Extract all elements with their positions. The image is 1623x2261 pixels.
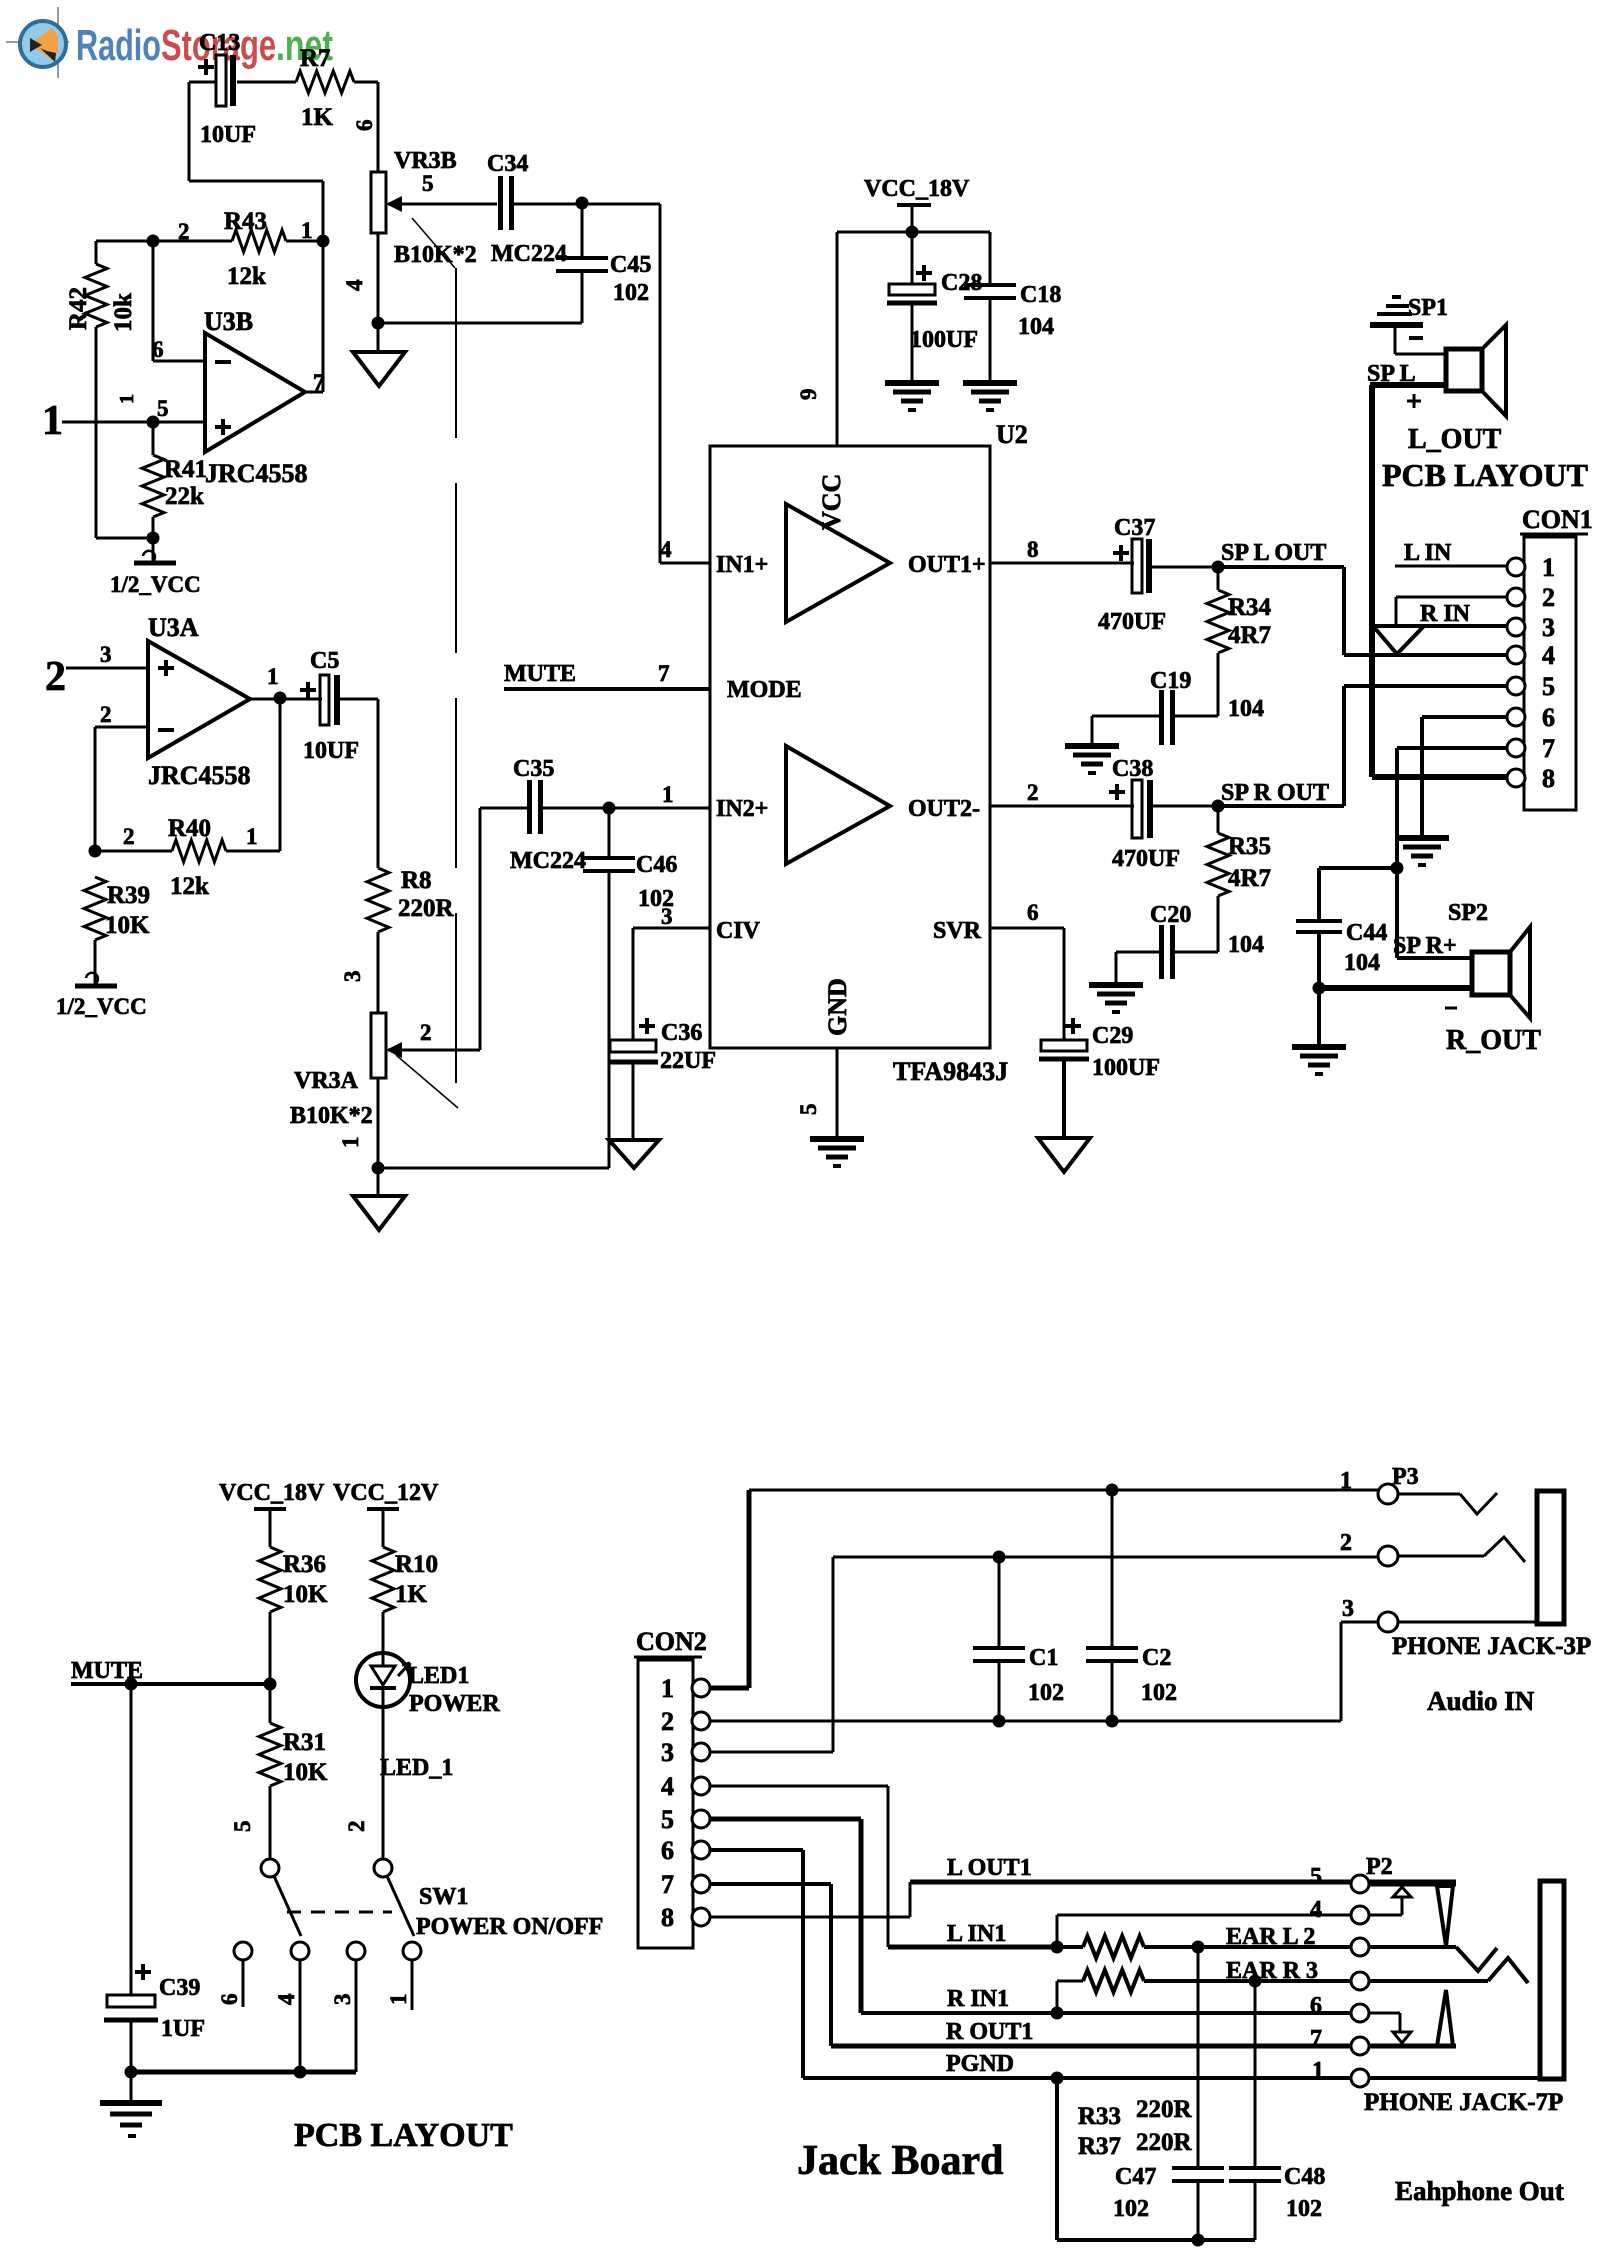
svg-text:CIV: CIV	[716, 918, 761, 944]
svg-text:C45: C45	[610, 252, 651, 278]
pin label MODE	[727, 677, 802, 703]
capacitor C34	[487, 151, 567, 267]
svg-text:1/2_VCC: 1/2_VCC	[56, 994, 147, 1019]
resistor R31	[230, 1684, 369, 1858]
phone jack P3 internals	[1398, 1491, 1564, 1624]
wire OUT1+ to C37	[990, 562, 1134, 565]
resistor R36	[259, 1547, 328, 1684]
svg-text:R33: R33	[1078, 2103, 1121, 2130]
svg-text:9: 9	[796, 389, 821, 401]
svg-text:C39: C39	[159, 1975, 200, 2001]
svg-text:10K: 10K	[283, 1581, 328, 1608]
svg-text:VCC_12V: VCC_12V	[333, 1480, 439, 1506]
svg-text:2: 2	[344, 1821, 369, 1833]
svg-text:6: 6	[217, 1994, 242, 2006]
svg-text:3: 3	[340, 971, 365, 983]
resistor R8	[340, 867, 455, 1013]
wire audio top rail	[749, 1489, 1378, 1492]
capacitor C2	[1086, 1490, 1177, 1721]
logo radiostorage icon	[6, 7, 69, 78]
net R IN	[1373, 601, 1507, 627]
resistor R39	[84, 877, 150, 985]
svg-text:C37: C37	[1114, 515, 1155, 541]
svg-text:R37: R37	[1078, 2133, 1121, 2160]
switch SW1	[217, 1859, 603, 2072]
svg-text:Audio IN: Audio IN	[1427, 1686, 1535, 1716]
speaker SP2	[1319, 927, 1530, 1018]
resistor R34	[1207, 567, 1272, 716]
wire VR3A bottom to C46	[378, 1167, 609, 1170]
capacitor C5	[300, 648, 359, 764]
svg-text:1/2_VCC: 1/2_VCC	[110, 572, 201, 597]
svg-text:470UF: 470UF	[1112, 846, 1180, 872]
svg-text:C38: C38	[1112, 756, 1153, 782]
wire SVR to C29	[990, 928, 1064, 1040]
wire CON1 pin6	[1422, 717, 1507, 836]
svg-text:PCB LAYOUT: PCB LAYOUT	[294, 2117, 513, 2154]
svg-text:22UF: 22UF	[660, 1048, 716, 1074]
resistor R33 inline	[1057, 1924, 1352, 1958]
ground VR3B	[353, 323, 405, 386]
svg-text:6: 6	[661, 1836, 674, 1865]
svg-text:102: 102	[613, 280, 649, 306]
wire PGND bottom loop	[1057, 2078, 1255, 2240]
resistor R37 inline	[1057, 1958, 1352, 2013]
svg-text:104: 104	[1228, 696, 1264, 722]
svg-text:R IN: R IN	[1420, 601, 1471, 627]
svg-text:104: 104	[1018, 314, 1054, 340]
svg-text:SP R+: SP R+	[1393, 933, 1457, 959]
svg-text:102: 102	[1286, 2196, 1322, 2222]
wire CON2 pin6 PGND	[710, 1850, 1352, 2078]
svg-text:2: 2	[45, 654, 66, 700]
capacitor C28	[887, 232, 982, 382]
wire CON2 pin7 R OUT1	[710, 1884, 1456, 2046]
op-amp U3B	[204, 307, 308, 488]
ground SP1	[1370, 297, 1423, 354]
svg-text:102: 102	[1141, 1680, 1177, 1706]
net SP R+	[1393, 868, 1472, 959]
svg-text:4: 4	[661, 1772, 674, 1801]
svg-text:3: 3	[1542, 613, 1555, 642]
svg-text:7: 7	[1542, 734, 1555, 763]
svg-text:VCC_18V: VCC_18V	[864, 176, 970, 202]
capacitor C18	[964, 232, 1061, 382]
svg-text:R39: R39	[107, 882, 150, 909]
capacitor C35	[510, 756, 710, 874]
svg-text:1: 1	[1542, 553, 1555, 582]
capacitor C37	[1098, 515, 1218, 635]
svg-text:R40: R40	[168, 815, 211, 842]
node C1 bottom	[993, 1715, 1006, 1728]
svg-text:Radio: Radio	[76, 21, 161, 70]
svg-text:C13: C13	[199, 30, 240, 56]
svg-text:10K: 10K	[283, 1759, 328, 1786]
triangle junction R IN	[1373, 626, 1424, 654]
svg-text:C35: C35	[513, 756, 554, 782]
svg-text:MODE: MODE	[727, 677, 802, 703]
node R43 left	[147, 235, 160, 248]
svg-text:7: 7	[658, 661, 670, 686]
power 1/2_VCC lower	[56, 973, 147, 1019]
net L IN	[1395, 540, 1507, 566]
node 2 input	[45, 642, 148, 700]
wire C34 to IN1+	[512, 204, 710, 563]
svg-text:OUT2-: OUT2-	[908, 796, 980, 822]
connector CON2	[634, 1627, 710, 1948]
svg-text:C34: C34	[487, 151, 528, 177]
svg-text:6: 6	[1027, 900, 1039, 925]
node R40 left	[89, 845, 102, 858]
svg-text:EAR R 3: EAR R 3	[1226, 1958, 1318, 1984]
svg-text:C29: C29	[1092, 1023, 1133, 1049]
node switch 4	[294, 2066, 307, 2079]
node C47 bottom	[1192, 2234, 1205, 2247]
capacitor C47	[1113, 1947, 1224, 2240]
speaker SP1	[1367, 325, 1506, 416]
svg-text:1: 1	[1312, 2058, 1324, 2084]
svg-text:102: 102	[1113, 2196, 1149, 2222]
wire C13 left loop	[189, 82, 323, 241]
svg-text:MC224: MC224	[491, 241, 567, 267]
svg-text:3: 3	[661, 1738, 674, 1767]
capacitor C39	[104, 1684, 205, 2072]
svg-text:104: 104	[1344, 950, 1380, 976]
wire CON2 pin5 R IN1	[710, 1819, 1352, 2013]
svg-text:22k: 22k	[165, 483, 204, 510]
svg-text:5: 5	[230, 1821, 255, 1833]
ground C19	[1065, 743, 1119, 749]
svg-text:CON2: CON2	[636, 1627, 707, 1656]
svg-text:MUTE: MUTE	[504, 661, 576, 687]
svg-text:12k: 12k	[227, 263, 266, 290]
node SP_R_OUT	[1212, 800, 1225, 813]
wire U3B output pin 7	[305, 241, 325, 395]
node MUTE C39	[125, 1678, 138, 1691]
svg-text:SP R OUT: SP R OUT	[1221, 780, 1329, 806]
svg-text:SW1: SW1	[419, 1884, 468, 1910]
svg-text:L IN: L IN	[1404, 540, 1452, 566]
power VCC_18V	[864, 176, 970, 232]
svg-text:R42: R42	[65, 287, 92, 330]
wire C45 to VR3B bottom	[378, 322, 582, 325]
ground C18	[963, 380, 1017, 386]
svg-text:C5: C5	[310, 648, 339, 674]
svg-text:1K: 1K	[301, 104, 334, 131]
svg-text:7: 7	[1310, 2026, 1322, 2052]
wire CIV	[633, 904, 710, 1040]
node EAR L	[1192, 1941, 1205, 1954]
node 1 input	[42, 394, 205, 444]
svg-text:3: 3	[661, 904, 673, 929]
svg-text:1K: 1K	[395, 1581, 428, 1608]
resistor R41	[142, 422, 207, 538]
ground VR3A	[353, 1168, 405, 1230]
power 1/2_VCC upper	[110, 538, 201, 597]
wire CON2 pin1	[710, 1490, 749, 1688]
node plus input	[147, 416, 160, 429]
svg-text:8: 8	[1027, 537, 1039, 562]
amplifier triangle 2	[786, 746, 890, 864]
capacitor C20	[1116, 902, 1264, 984]
svg-text:2: 2	[1340, 1530, 1352, 1556]
potentiometer VR3B	[342, 148, 497, 323]
net SP L OUT	[1218, 540, 1344, 655]
svg-text:PHONE JACK-3P: PHONE JACK-3P	[1392, 1633, 1591, 1660]
svg-text:6: 6	[352, 120, 377, 132]
node MUTE R31	[264, 1678, 277, 1691]
svg-text:2: 2	[420, 1020, 432, 1045]
ground CON1 pin6	[1395, 835, 1449, 841]
svg-text:SVR: SVR	[933, 918, 982, 944]
svg-text:SP L OUT: SP L OUT	[1221, 540, 1326, 566]
svg-text:8: 8	[1542, 764, 1555, 793]
svg-text:4: 4	[274, 1993, 299, 2005]
svg-text:5: 5	[422, 171, 434, 196]
resistor R43	[153, 208, 323, 290]
svg-text:IN2+: IN2+	[716, 796, 768, 822]
ground C20	[1089, 982, 1143, 988]
svg-text:1: 1	[661, 1674, 674, 1703]
svg-text:LED_1: LED_1	[380, 1755, 453, 1781]
wire CON2 pin4 L IN1	[710, 1786, 1057, 1947]
net MUTE lower	[71, 1658, 270, 1684]
svg-text:PCB LAYOUT: PCB LAYOUT	[1382, 457, 1588, 493]
capacitor C29	[1039, 1018, 1160, 1138]
node C1 top	[993, 1551, 1006, 1564]
svg-text:LED1: LED1	[408, 1663, 469, 1689]
svg-text:102: 102	[1028, 1680, 1064, 1706]
wire switch common	[131, 2070, 356, 2075]
wire GND pin 5	[796, 1048, 837, 1138]
svg-text:3: 3	[100, 642, 112, 667]
svg-text:C18: C18	[1020, 282, 1061, 308]
power VCC_12V	[333, 1480, 439, 1547]
svg-text:4: 4	[342, 279, 367, 291]
node SP2 plus	[1391, 862, 1404, 875]
svg-text:R10: R10	[395, 1551, 438, 1578]
svg-text:1: 1	[42, 398, 63, 444]
svg-text:100UF: 100UF	[1092, 1055, 1160, 1081]
wire pin4 net to P2 pin4	[1057, 1915, 1352, 1947]
wire CON1 pin5	[1344, 684, 1507, 688]
resistor R7	[296, 45, 354, 131]
resistor R42	[65, 241, 153, 538]
svg-text:2: 2	[1542, 583, 1555, 612]
capacitor C45	[556, 203, 651, 323]
svg-text:L IN1: L IN1	[947, 1921, 1006, 1947]
svg-text:1: 1	[338, 1137, 363, 1149]
svg-text:C36: C36	[661, 1020, 702, 1046]
svg-text:1UF: 1UF	[161, 2016, 205, 2042]
pin label OUT1+	[908, 537, 1039, 578]
pin label SVR	[933, 900, 1039, 944]
resistor R35	[1207, 806, 1271, 952]
svg-text:C20: C20	[1150, 902, 1191, 928]
svg-text:220R: 220R	[398, 895, 455, 922]
svg-text:L OUT1: L OUT1	[947, 1855, 1032, 1881]
ground C29	[1038, 1138, 1090, 1172]
LED LED1	[356, 1653, 500, 1858]
svg-text:C44: C44	[1346, 920, 1387, 946]
svg-text:5: 5	[1310, 1864, 1322, 1890]
svg-text:7: 7	[313, 370, 325, 395]
svg-text:4: 4	[660, 537, 672, 562]
svg-text:220R: 220R	[1136, 2096, 1193, 2123]
svg-text:4: 4	[1542, 641, 1555, 670]
wire CON1 pin2	[1396, 597, 1507, 624]
svg-text:R43: R43	[224, 208, 267, 235]
logo radiostorage text	[76, 21, 333, 70]
svg-text:PHONE JACK-7P: PHONE JACK-7P	[1364, 2089, 1563, 2116]
node VR3B bottom	[372, 317, 385, 330]
svg-text:104: 104	[1228, 932, 1264, 958]
capacitor C36	[608, 1018, 716, 1140]
svg-text:1: 1	[246, 824, 258, 849]
wire VCC rail	[796, 232, 990, 446]
capacitor C38	[1109, 756, 1218, 872]
svg-text:R41: R41	[164, 456, 207, 483]
wire OUT2- to C38	[990, 805, 1134, 808]
node C39 bottom	[125, 2066, 138, 2079]
svg-text:C46: C46	[636, 852, 677, 878]
svg-text:5: 5	[661, 1805, 674, 1834]
svg-text:IN1+: IN1+	[716, 552, 768, 578]
wire C5 to R8	[340, 699, 378, 868]
svg-text:POWER ON/OFF: POWER ON/OFF	[416, 1914, 603, 1940]
svg-text:OUT1+: OUT1+	[908, 552, 986, 578]
svg-text:Eahphone Out: Eahphone Out	[1395, 2176, 1564, 2206]
op-amp U3A	[148, 613, 251, 790]
wire CON1 pin7	[1397, 748, 1507, 868]
node C2 top	[1106, 1484, 1119, 1497]
svg-text:POWER: POWER	[409, 1691, 500, 1717]
capacitor C1	[973, 1557, 1064, 1721]
svg-text:5: 5	[796, 1104, 821, 1116]
svg-text:C1: C1	[1029, 1645, 1058, 1671]
svg-text:CON1: CON1	[1522, 505, 1593, 534]
svg-text:TFA9843J: TFA9843J	[893, 1057, 1008, 1086]
svg-text:220R: 220R	[1136, 2129, 1193, 2156]
power VCC_18V lower	[219, 1480, 325, 1547]
svg-text:1: 1	[386, 1994, 411, 2006]
capacitor C13	[198, 30, 256, 148]
wire C13 to R7	[237, 81, 296, 84]
wire CON2 pin2 rail	[710, 1720, 1341, 1723]
svg-text:L_OUT: L_OUT	[1408, 424, 1502, 455]
svg-text:5: 5	[1542, 672, 1555, 701]
svg-text:1: 1	[1340, 1468, 1352, 1494]
node C44 bottom	[1313, 982, 1326, 995]
svg-text:12k: 12k	[170, 873, 209, 900]
dashed channel divider	[455, 268, 457, 1105]
svg-text:MC224: MC224	[510, 848, 586, 874]
svg-text:10UF: 10UF	[303, 738, 359, 764]
svg-text:10k: 10k	[110, 293, 137, 332]
potentiometer VR3A	[290, 1013, 432, 1168]
svg-text:1: 1	[267, 664, 279, 689]
wire CON1 pin4	[1344, 653, 1507, 657]
ground C36	[609, 1140, 659, 1168]
node SP_L_OUT	[1212, 561, 1225, 574]
ground C44	[1292, 988, 1346, 1074]
svg-text:R31: R31	[283, 1729, 326, 1756]
phone jack P2 pins	[1310, 1854, 1393, 2087]
svg-text:1: 1	[301, 218, 313, 243]
svg-text:C48: C48	[1284, 2164, 1325, 2190]
svg-text:100UF: 100UF	[910, 327, 978, 353]
svg-text:6: 6	[1310, 1993, 1322, 2019]
wire CON2 pin8 L OUT1	[710, 1855, 1456, 1917]
wire U3A inverting input	[95, 702, 148, 851]
amplifier triangle 1	[786, 504, 890, 622]
svg-text:JRC4558: JRC4558	[205, 459, 308, 488]
node R IN1	[1051, 2007, 1064, 2020]
svg-text:470UF: 470UF	[1098, 609, 1166, 635]
node C35-C46	[603, 802, 616, 815]
svg-text:VR3A: VR3A	[294, 1068, 359, 1094]
node VCC rail	[906, 226, 919, 239]
net SP_L wire	[1372, 385, 1508, 777]
node L IN1	[1051, 1941, 1064, 1954]
svg-text:P2: P2	[1366, 1854, 1393, 1880]
wire pin2 to P3 pin3	[1341, 1622, 1378, 1721]
svg-text:10UF: 10UF	[200, 122, 256, 148]
svg-text:R_OUT: R_OUT	[1446, 1025, 1541, 1056]
svg-text:2: 2	[1027, 780, 1039, 805]
net SP R OUT	[1218, 686, 1344, 806]
svg-text:6: 6	[1542, 703, 1555, 732]
svg-text:C47: C47	[1115, 2164, 1156, 2190]
svg-text:Jack Board: Jack Board	[797, 2138, 1004, 2184]
wire to U3B inverting input	[152, 241, 205, 362]
svg-text:SP1: SP1	[1408, 295, 1448, 321]
svg-text:R IN1: R IN1	[947, 1986, 1009, 2012]
svg-text:R36: R36	[283, 1551, 326, 1578]
svg-text:R OUT1: R OUT1	[946, 2019, 1033, 2045]
svg-text:VCC: VCC	[817, 474, 846, 530]
resistor R10	[372, 1547, 438, 1653]
node R43 right	[317, 235, 330, 248]
svg-text:U3A: U3A	[148, 613, 199, 642]
connector CON1	[1507, 505, 1593, 810]
pin label IN1+	[660, 537, 768, 578]
svg-text:R35: R35	[1228, 833, 1271, 860]
resistor R40	[95, 698, 280, 900]
svg-text:R8: R8	[401, 867, 432, 894]
svg-text:C2: C2	[1142, 1645, 1171, 1671]
svg-text:VCC_18V: VCC_18V	[219, 1480, 325, 1506]
svg-text:2: 2	[123, 824, 135, 849]
svg-text:B10K*2: B10K*2	[290, 1103, 373, 1129]
ground C39	[100, 2072, 162, 2136]
svg-text:GND: GND	[823, 978, 852, 1036]
label R37	[1078, 2129, 1193, 2160]
svg-text:SP2: SP2	[1448, 900, 1488, 926]
svg-text:10K: 10K	[105, 912, 150, 939]
svg-text:4R7: 4R7	[1228, 865, 1271, 892]
svg-text:7: 7	[661, 1870, 674, 1899]
wire CON2 pin3	[710, 1557, 1378, 1752]
svg-text:8: 8	[661, 1903, 674, 1932]
svg-text:4R7: 4R7	[1228, 622, 1271, 649]
node EAR R	[1249, 1975, 1262, 1988]
wire R7 to VR3B	[352, 82, 378, 172]
node R41 bottom	[147, 532, 160, 545]
IC U2 TFA9843J body	[710, 420, 1028, 1086]
dashed link VR3A	[396, 1055, 458, 1108]
net MUTE	[504, 661, 710, 689]
